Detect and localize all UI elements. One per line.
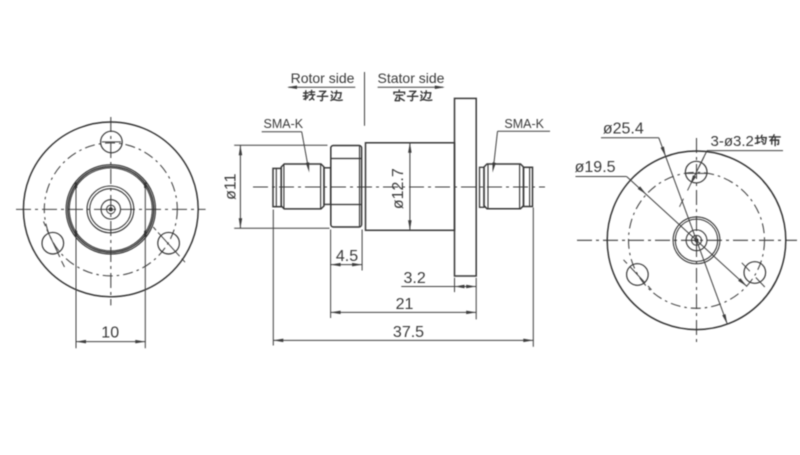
svg-text:Rotor side: Rotor side bbox=[291, 70, 355, 86]
SMA-K right underline bbox=[498, 130, 551, 132]
rotor-stator separator line bbox=[364, 72, 366, 126]
top hole centerline slash (dashed) bbox=[699, 157, 704, 167]
rotor side arrow bbox=[289, 86, 356, 88]
label stator-side chinese bbox=[394, 90, 405, 101]
left view center pin dot bbox=[109, 208, 112, 211]
dimension 37.5 right extension bbox=[532, 208, 534, 347]
right view bolt circle (dashed) bbox=[629, 172, 765, 308]
dimension phi25.4 underline bbox=[601, 137, 659, 139]
rotor connector hex body bbox=[281, 164, 324, 209]
left view connector insulator circle bbox=[101, 200, 120, 219]
left view horizontal centerline bbox=[16, 208, 206, 210]
dimension 3.2 leader bbox=[401, 286, 454, 288]
dimension 3.2 right extension bbox=[475, 278, 477, 320]
label rotor-side chinese bbox=[303, 90, 314, 100]
label 3-phi3.2 leader bbox=[692, 151, 708, 182]
svg-text:SMA-K: SMA-K bbox=[504, 117, 544, 131]
dimension 3.2 line bbox=[455, 286, 477, 288]
left view connector circle 2 bbox=[90, 189, 131, 230]
svg-text:Stator side: Stator side bbox=[378, 70, 445, 86]
left view bottom-right hole slash bbox=[158, 232, 180, 256]
dimension 21 line bbox=[331, 311, 477, 313]
stator end cap inner line bbox=[529, 167, 531, 206]
left view flat-band wedge bottom-right bbox=[144, 231, 146, 237]
svg-text:ø19.5: ø19.5 bbox=[575, 159, 616, 176]
right view bottom-right hole dashed slash bbox=[742, 263, 750, 271]
rotor end cap inner line bbox=[275, 168, 277, 206]
left view flat-band wedge top-right bbox=[144, 183, 146, 189]
dimension phi19.5 underline bbox=[576, 176, 627, 178]
SMA-K right leader bbox=[494, 131, 498, 166]
right view connector insulator circle bbox=[686, 230, 707, 251]
rotor connector step bbox=[324, 168, 331, 205]
right view bottom-left hole slash bbox=[630, 267, 645, 284]
main body cylinder bbox=[366, 143, 455, 231]
svg-text:ø25.4: ø25.4 bbox=[603, 121, 644, 138]
rotor nut upper facet line bbox=[331, 158, 361, 160]
left view flange outer circle bbox=[23, 122, 198, 297]
right view connector circle 2 bbox=[675, 219, 717, 261]
left view knurled nut ring outer bbox=[66, 165, 155, 254]
label 3-phi3.2 underline bbox=[707, 150, 783, 152]
dimension 4.5 left extension bbox=[330, 230, 332, 319]
middle view centerline bbox=[253, 186, 545, 188]
stator side arrow bbox=[378, 86, 444, 88]
dimension 4.5 right extension bbox=[361, 230, 363, 271]
dimension 37.5 left extension bbox=[272, 210, 274, 346]
left view knurled nut ring middle bbox=[68, 166, 154, 252]
svg-text:3.2: 3.2 bbox=[403, 270, 425, 287]
stator hex inner line right bbox=[519, 164, 521, 208]
left view flat-band wedge top-left bbox=[75, 183, 77, 189]
svg-text:10: 10 bbox=[101, 324, 119, 341]
rotor nut inner line right bbox=[359, 146, 361, 226]
rotor hex inner line left bbox=[283, 164, 285, 208]
dimension 10 line bbox=[76, 341, 145, 343]
left view top hole horizontal tick bbox=[102, 141, 121, 143]
right view center pin dot bbox=[695, 239, 698, 242]
svg-text:37.5: 37.5 bbox=[393, 324, 424, 341]
dimension phi11 top extension bbox=[234, 144, 327, 146]
right view bottom-right mounting hole bbox=[744, 262, 766, 284]
dimension phi11 bottom extension bbox=[234, 227, 329, 229]
svg-text:4.5: 4.5 bbox=[336, 248, 358, 265]
right view top hole horizontal tick bbox=[685, 172, 708, 174]
left view bottom-left hole slash bbox=[47, 230, 60, 258]
left view wrench flat right / extension line bbox=[144, 183, 146, 348]
dimension phi11 line bbox=[239, 145, 241, 228]
stator gasket ring bbox=[480, 167, 485, 207]
rotor nut lower facet line bbox=[331, 204, 361, 206]
right view top mounting hole bbox=[685, 161, 707, 183]
svg-text:ø11: ø11 bbox=[223, 173, 240, 199]
right view flange outer circle bbox=[607, 151, 786, 330]
dimension 3.2 left extension bbox=[454, 278, 456, 292]
dimension 4.5 line bbox=[331, 264, 363, 266]
right view horizontal centerline bbox=[577, 239, 797, 241]
right view vertical centerline bbox=[696, 138, 698, 344]
stator connector hex body bbox=[484, 164, 524, 209]
stator hex inner line left bbox=[487, 164, 489, 208]
dimension phi25.4 leader bbox=[659, 138, 728, 324]
right view connector outer circle bbox=[673, 217, 720, 264]
right view connector pin circle bbox=[692, 235, 702, 245]
dimension phi19.5 leader bbox=[627, 177, 747, 287]
right view bottom-left mounting hole bbox=[627, 264, 649, 286]
stator flange bbox=[455, 98, 477, 276]
SMA-K left underline bbox=[262, 131, 302, 133]
svg-text:21: 21 bbox=[396, 296, 414, 313]
left view flat-band wedge bottom-left bbox=[75, 231, 77, 237]
left view connector pin circle bbox=[107, 205, 116, 214]
stator connector end cap bbox=[524, 167, 533, 206]
svg-text:SMA-K: SMA-K bbox=[264, 117, 304, 131]
left view bolt circle (dashed) bbox=[44, 143, 177, 276]
left view top mounting hole bbox=[101, 131, 123, 153]
left view bottom-right mounting hole bbox=[158, 232, 180, 254]
left view bottom-left mounting hole bbox=[42, 232, 64, 254]
dimension phi12.7 line bbox=[409, 143, 411, 231]
svg-text:ø12.7: ø12.7 bbox=[390, 168, 407, 209]
left view wrench flat left / extension line bbox=[75, 183, 77, 348]
left view knurled nut ring inner bbox=[69, 168, 152, 251]
svg-text:3-ø3.2: 3-ø3.2 bbox=[711, 133, 754, 150]
rotor hex inner line right bbox=[320, 164, 322, 208]
dimension 37.5 line bbox=[273, 339, 533, 341]
left view vertical centerline bbox=[110, 117, 112, 305]
rotor connector end cap bbox=[273, 168, 281, 206]
SMA-K left leader bbox=[302, 132, 308, 166]
left view connector outer circle bbox=[87, 186, 134, 233]
rotor coupling nut bbox=[331, 146, 362, 228]
